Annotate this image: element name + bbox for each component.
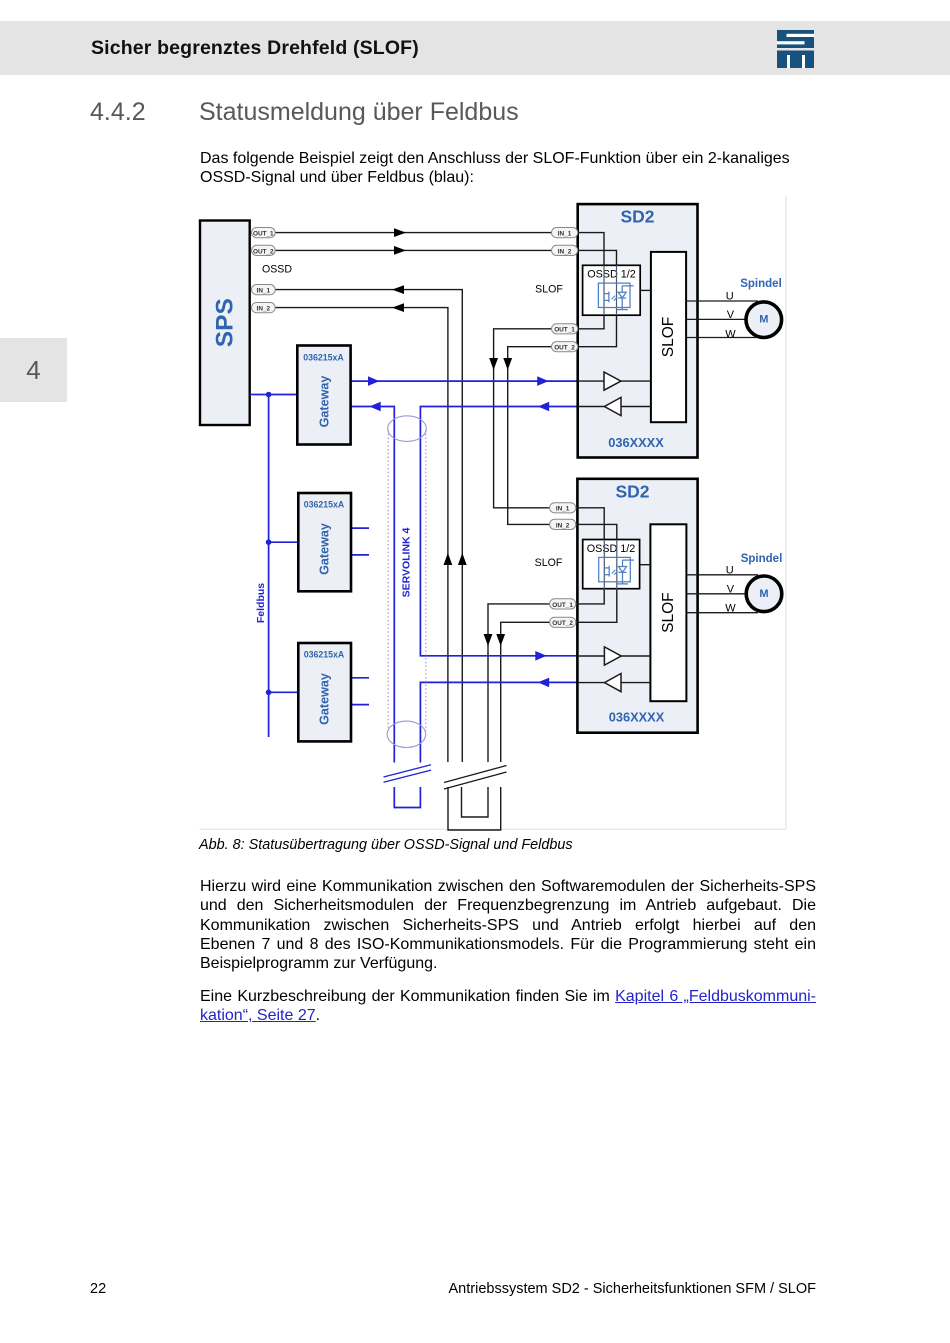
arrow left into G1	[369, 402, 380, 412]
svg-text:SLOF: SLOF	[535, 557, 563, 569]
arrow left into SPS IN_2	[392, 303, 404, 312]
label IN_1 SD2#1	[552, 228, 578, 238]
label OUT_2 on SPS	[252, 245, 276, 255]
SLOF function block SD2#2	[650, 524, 686, 701]
wire stub SPS IN_1 vertical lower end	[461, 761, 463, 763]
OSSD 1/2 module SD2#2	[583, 540, 640, 589]
label OUT_1 on SPS	[252, 228, 276, 238]
arrow right into SD2#2	[535, 651, 546, 661]
wire SD2#1 OUT_1 down to SD2#2 IN_1	[494, 329, 552, 508]
wire OSSD#1 to SLOF#1	[640, 289, 651, 291]
label OUT_1 SD2#2	[550, 599, 576, 609]
svg-text:Spindel: Spindel	[741, 553, 783, 565]
svg-text:SLOF: SLOF	[660, 317, 677, 357]
svg-text:U: U	[726, 564, 734, 576]
SPS controller box	[200, 221, 250, 426]
svg-text:U: U	[726, 291, 734, 303]
svg-text:036XXXX: 036XXXX	[608, 435, 664, 450]
svg-text:M: M	[759, 314, 768, 326]
cable break marks black pair	[444, 766, 507, 790]
label OUT_2 SD2#1	[552, 342, 578, 352]
wire SD2#2 OUT_1 down to cable break	[488, 604, 550, 762]
wire SD2#2 OUT_2 internal	[576, 589, 617, 623]
svg-text:V: V	[727, 583, 735, 595]
svg-text:Gateway: Gateway	[318, 376, 332, 428]
svg-text:SD2: SD2	[620, 207, 654, 227]
figure frame	[199, 197, 786, 830]
arrow down on SD2#2 OUT_1 vertical	[484, 634, 493, 646]
wire SD2#2 return down to cable break (blue)	[420, 682, 577, 762]
wire U phase SD2#2	[686, 574, 758, 576]
wire SD2#1 return down cable to SD2#2 (blue)	[420, 407, 577, 656]
buffer in SD2#2	[578, 674, 651, 692]
junction dot feldbus at G3	[266, 690, 272, 696]
buffer out SD2#1	[578, 372, 651, 390]
label OUT_2 SD2#2	[550, 617, 576, 627]
buffer in SD2#1	[578, 397, 651, 415]
wire V phase SD2#1	[686, 318, 748, 320]
label OUT_1 SD2#1	[552, 324, 578, 334]
wire SD2#2 IN_1 internal	[576, 508, 604, 540]
wire SPS OUT_1 to SD2#1 IN_1	[275, 232, 551, 234]
svg-text:SLOF: SLOF	[535, 284, 563, 296]
svg-text:036215xA: 036215xA	[303, 352, 344, 362]
wire SD2#2 IN_2 internal	[576, 524, 617, 539]
arrow left out of SD2#1	[538, 402, 549, 412]
svg-text:Gateway: Gateway	[318, 523, 332, 575]
wire SD2#2 OUT_2 up to SPS IN_2	[275, 308, 448, 762]
svg-text:IN_2: IN_2	[558, 248, 572, 255]
svg-text:OUT_1: OUT_1	[253, 231, 274, 238]
svg-text:Gateway: Gateway	[318, 673, 332, 725]
paragraph 2 with link	[200, 987, 816, 1026]
section title	[199, 98, 519, 127]
svg-text:OUT_1: OUT_1	[554, 327, 575, 334]
stub port 2 Gateway G2	[351, 554, 369, 556]
label IN_2 SD2#1	[552, 245, 578, 255]
svg-text:036XXXX: 036XXXX	[609, 710, 665, 725]
svg-text:OSSD 1/2: OSSD 1/2	[587, 269, 636, 281]
svg-text:Spindel: Spindel	[740, 278, 782, 290]
svg-text:V: V	[727, 309, 735, 321]
Gateway G1 box	[297, 346, 350, 445]
wire SPS OUT_2 to SD2#1 IN_2	[275, 249, 551, 251]
svg-text:OUT_2: OUT_2	[552, 620, 573, 627]
wire U phase SD2#1	[686, 300, 758, 302]
svg-text:IN_1: IN_1	[556, 506, 570, 513]
wire W phase SD2#2	[686, 612, 758, 614]
header band	[0, 21, 950, 75]
wire inner loop below break	[462, 787, 489, 817]
svg-text:IN_2: IN_2	[556, 522, 570, 529]
wire SD2#2 OUT_1 internal	[576, 589, 604, 604]
label IN_1 on SPS	[252, 285, 276, 295]
wire SD2#2 OUT_1 up to SPS IN_1	[275, 290, 462, 762]
svg-text:W: W	[725, 602, 736, 614]
company logo	[777, 30, 815, 68]
svg-text:IN_1: IN_1	[257, 288, 271, 295]
svg-text:OUT_1: OUT_1	[552, 602, 573, 609]
wire feldbus to Gateway G2	[269, 541, 299, 543]
stub port 2 Gateway G3	[351, 704, 369, 706]
arrow down on SD2#2 OUT_2 vertical	[496, 634, 505, 646]
cable break marks blue pair	[384, 765, 432, 783]
section number	[90, 98, 146, 127]
paragraph 1	[200, 877, 816, 973]
SLOF function block SD2#1	[651, 252, 686, 422]
arrow left into SPS IN_1	[392, 285, 404, 294]
Gateway G3 box	[298, 643, 351, 741]
wire SPS to Gateway G1 (blue)	[250, 394, 298, 396]
svg-text:SD2: SD2	[615, 482, 649, 502]
junction dot feldbus at G2	[266, 539, 272, 545]
svg-text:SPS: SPS	[211, 298, 238, 347]
arrow up on vertical to SPS IN_1	[458, 553, 467, 565]
wire SD2#1 IN_1 internal	[578, 233, 604, 266]
arrow up on vertical to SPS IN_2	[444, 553, 453, 565]
stub port 1 Gateway G2	[351, 527, 369, 529]
label IN_1 SD2#2	[550, 503, 576, 513]
label IN_2 SD2#2	[550, 519, 576, 529]
arrow right on OUT_2 wire	[394, 246, 406, 255]
OSSD#1 optocoupler symbol	[598, 265, 633, 315]
motor M2 spindle	[746, 576, 782, 612]
svg-text:OUT_2: OUT_2	[253, 248, 274, 255]
wire cable up-conductor to Gateway G1 (blue)	[351, 407, 395, 763]
arrow right after G1	[368, 376, 379, 386]
svg-text:SERVOLINK 4: SERVOLINK 4	[401, 527, 413, 597]
wire SD2#2 OUT_2 down to cable break	[501, 622, 550, 762]
drive unit SD2#2 box	[577, 479, 697, 733]
svg-text:036215xA: 036215xA	[304, 650, 345, 660]
wire OSSD#2 to SLOF#2	[640, 564, 651, 566]
arrow right on OUT_1 wire	[394, 228, 406, 237]
drive unit SD2#1 box	[578, 204, 698, 457]
svg-text:IN_1: IN_1	[558, 231, 572, 238]
cable shield dotted left	[387, 430, 389, 731]
wire SD2#1 IN_2 internal	[578, 250, 617, 265]
Gateway G2 box	[298, 493, 351, 591]
OSSD 1/2 module SD2#1	[583, 265, 641, 315]
arrow down on SD2#1 OUT_2 vertical	[503, 358, 512, 370]
svg-text:SLOF: SLOF	[660, 592, 677, 632]
svg-text:OUT_2: OUT_2	[554, 345, 575, 352]
wire outer loop below break	[448, 787, 501, 830]
wire feldbus trunk vertical	[268, 395, 270, 738]
svg-text:OSSD: OSSD	[262, 263, 292, 275]
wire SD2#1 OUT_2 internal	[578, 315, 617, 347]
FIGURE	[190, 190, 802, 838]
wire blue loop below break	[394, 787, 420, 808]
wire V phase SD2#2	[686, 593, 748, 595]
svg-text:036215xA: 036215xA	[304, 500, 345, 510]
arrow left out of SD2#2	[538, 678, 549, 688]
svg-text:M: M	[759, 588, 768, 600]
junction dot feldbus at G1	[266, 392, 272, 398]
svg-text:W: W	[725, 328, 736, 340]
svg-text:IN_2: IN_2	[257, 306, 271, 313]
header title	[91, 37, 419, 60]
wire Gateway G1 to SD2#1 forward (blue)	[351, 380, 578, 382]
wire SD2#1 OUT_1 internal	[578, 315, 604, 329]
arrow right into SD2#1	[537, 376, 548, 386]
footer page number	[90, 1281, 106, 1297]
figure caption	[199, 837, 573, 853]
cable ellipse top	[388, 416, 427, 442]
arrow down on SD2#1 OUT_1 vertical	[489, 358, 498, 370]
wire W phase SD2#1	[686, 337, 758, 339]
svg-text:OSSD 1/2: OSSD 1/2	[587, 543, 636, 555]
chapter tab 4	[0, 338, 67, 402]
motor M1 spindle	[746, 302, 782, 338]
label IN_2 on SPS	[252, 303, 276, 313]
buffer out SD2#2	[578, 647, 651, 665]
wire SD2#1 OUT_2 down to SD2#2 IN_2	[508, 347, 552, 525]
cable ellipse bottom	[387, 721, 426, 747]
intro paragraph	[200, 149, 822, 187]
stub port 1 Gateway G3	[351, 677, 369, 679]
cable shield dotted right	[425, 430, 427, 731]
svg-text:Feldbus: Feldbus	[255, 583, 267, 623]
footer document title	[0, 1281, 816, 1297]
wire feldbus to Gateway G3	[269, 691, 299, 693]
OSSD#2 optocoupler symbol	[599, 540, 634, 590]
